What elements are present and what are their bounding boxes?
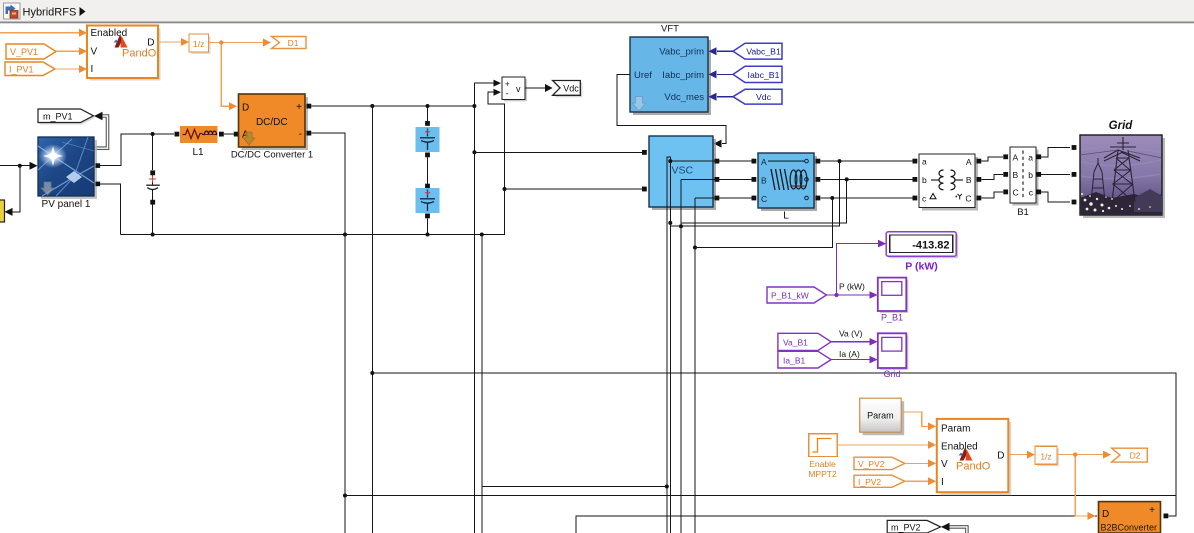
svg-text:m_PV2: m_PV2 — [891, 523, 921, 533]
svg-text:Uref: Uref — [634, 70, 652, 81]
wire phase A risers (bracket pair) down to bottom — [665, 157, 673, 533]
svg-text:V_PV2: V_PV2 — [858, 459, 885, 469]
from tag V_PV1 — [6, 44, 56, 59]
subsystem VFT (VSC controller) — [630, 24, 711, 116]
svg-text:D1: D1 — [288, 38, 299, 48]
wire bottom DC bus — [120, 89, 504, 237]
wire tap phase a loop back — [670, 161, 839, 226]
wire VSC + input — [474, 151, 644, 153]
svg-text:Vdc_mes: Vdc_mes — [664, 92, 704, 103]
wire B1 c to Grid — [1041, 192, 1070, 202]
svg-text:PandO: PandO — [956, 461, 991, 473]
svg-text:+: + — [505, 80, 510, 89]
wire V_PV1 to PandO1 — [56, 47, 87, 55]
wire vertical DC+ rail down (left of VSC) — [472, 106, 476, 533]
Grid port squares — [1072, 145, 1077, 204]
wire v to Vdc tag — [525, 84, 553, 92]
wire L b to transformer — [820, 177, 917, 181]
wire 1/z to D1 and down to DC/DC D — [209, 39, 272, 111]
wire PV+ up to L1 rail — [100, 134, 175, 166]
wire long horizontal mid-low — [345, 495, 1176, 497]
unit delay 1/z (2) — [1035, 446, 1059, 466]
wire vertical from bus junction down — [481, 235, 483, 533]
capacitor C_PV branch (symbol) — [146, 132, 160, 237]
svg-text:V_PV1: V_PV1 — [10, 47, 38, 57]
wire phase B from VSC to L — [681, 178, 754, 180]
svg-text:Iabc_B1: Iabc_B1 — [748, 70, 780, 80]
wire long DC+ bus to B2B converter — [370, 371, 1176, 516]
svg-text:VSC: VSC — [672, 165, 694, 177]
svg-text:-: - — [506, 88, 509, 98]
wire tap phase b loop back — [681, 179, 847, 223]
subsystem PandO (MPPT 1) U1 — [87, 26, 161, 81]
scope Grid — [878, 333, 909, 379]
wire + tap to voltage measurement — [474, 80, 501, 106]
svg-text:DC/DC: DC/DC — [256, 117, 288, 128]
wire phase B riser down to bottom — [679, 179, 683, 533]
svg-text:MPPT2: MPPT2 — [808, 469, 837, 479]
svg-text:+: + — [296, 102, 302, 113]
svg-text:C: C — [965, 194, 971, 204]
wire DC- from converter down — [311, 133, 347, 533]
from tag Vabc_B1 — [733, 43, 782, 59]
svg-text:a: a — [922, 157, 927, 167]
wire 1/z to D2 and down to B2B D — [1057, 451, 1111, 520]
goto tag m_PV1 — [38, 109, 95, 125]
svg-text:a: a — [1028, 153, 1033, 163]
svg-text:D: D — [1102, 509, 1109, 520]
svg-text:Va (V): Va (V) — [839, 329, 863, 339]
svg-text:-413.82: -413.82 — [912, 240, 949, 252]
svg-text:P (kW): P (kW) — [905, 260, 937, 272]
voltage measurement block v — [502, 77, 527, 101]
three-phase transformer block — [919, 154, 978, 211]
wire Va_B1 to scope Grid — [831, 329, 878, 346]
svg-text:Vdc: Vdc — [756, 92, 772, 102]
wire B1 b to Grid — [1041, 173, 1070, 175]
svg-text:Grid: Grid — [883, 369, 900, 379]
wire B1 a to Grid — [1041, 148, 1070, 157]
svg-text:V: V — [91, 47, 98, 58]
svg-text:HybridRFS: HybridRFS — [23, 7, 77, 19]
capacitor C1 (blue block) — [416, 106, 440, 184]
wire phase C riser down to bottom — [693, 198, 697, 533]
from tag P_B1_kW — [767, 287, 827, 303]
goto tag Vdc — [553, 81, 583, 98]
unit delay 1/z — [189, 34, 211, 54]
wire L c to transformer — [820, 196, 917, 200]
svg-text:Param: Param — [867, 411, 894, 421]
svg-text:I_PV1: I_PV1 — [9, 65, 34, 75]
svg-text:VFT: VFT — [661, 24, 679, 35]
svg-text:PandO: PandO — [122, 48, 157, 60]
wire tap phase c loop back — [695, 198, 832, 248]
svg-text:I: I — [941, 477, 944, 488]
svg-text:D: D — [997, 450, 1004, 461]
wire DC+ rail — [311, 104, 476, 108]
svg-text:1/z: 1/z — [1040, 451, 1051, 461]
wire Param to PandO2 — [901, 412, 936, 430]
svg-text:DC/DC Converter 1: DC/DC Converter 1 — [231, 149, 313, 160]
svg-text:Enable: Enable — [809, 459, 836, 469]
svg-text:Iabc_prim: Iabc_prim — [662, 70, 704, 81]
svg-text:L1: L1 — [192, 147, 204, 158]
wire input into PV panel left — [0, 162, 38, 170]
constant block Param — [860, 398, 905, 435]
PV panel output port squares — [96, 163, 101, 186]
step source Enable MPPT2 — [808, 434, 837, 479]
svg-text:I: I — [91, 64, 94, 75]
svg-text:v: v — [516, 84, 521, 94]
wire Vdc to VFT — [709, 93, 734, 101]
svg-text:b: b — [1028, 170, 1033, 180]
wire VSC - input — [503, 187, 645, 191]
svg-text:Vdc: Vdc — [563, 84, 579, 94]
svg-text:A: A — [1013, 153, 1019, 163]
Grid block (photo of transmission tower) — [1080, 120, 1165, 218]
from tag Va_B1 — [778, 333, 831, 350]
wire transformer C to B1 — [981, 192, 1003, 198]
wire I_PV2 to PandO2 — [905, 477, 936, 485]
wire L1 to DC/DC A — [224, 132, 239, 137]
wire Enable MPPT2 to PandO2 — [837, 441, 936, 449]
scope P_B1 — [878, 278, 909, 323]
three-phase inductor L — [758, 153, 817, 222]
PV panel 1 block (photo) — [38, 137, 97, 210]
svg-text:B2BConverter: B2BConverter — [1101, 522, 1158, 532]
capacitor C2 (blue block) — [416, 184, 440, 235]
wire L a to transformer — [820, 159, 917, 163]
svg-text:I_PV2: I_PV2 — [858, 477, 881, 487]
svg-text:C: C — [1013, 188, 1019, 198]
from tag Iabc_B1 — [733, 66, 782, 82]
svg-text:P (kW): P (kW) — [839, 281, 865, 291]
svg-text:-: - — [299, 129, 302, 140]
L port squares — [752, 159, 821, 201]
wire phase A from VSC to L (with inner junction) — [668, 159, 754, 163]
svg-text:1/z: 1/z — [193, 39, 204, 49]
from tag Vdc (blue) — [733, 89, 782, 104]
svg-text:Vabc_prim: Vabc_prim — [659, 46, 704, 57]
bus wire into m_PV2 — [941, 523, 967, 533]
wire branch down to yellow block — [5, 166, 20, 216]
svg-text:B1: B1 — [1017, 207, 1029, 218]
wire phase C from VSC to L — [695, 197, 754, 199]
wire Ia_B1 to scope Grid — [831, 349, 878, 364]
from tag I_PV2 — [854, 475, 905, 487]
toolbar breadcrumb bar — [0, 0, 1194, 23]
wire P_B1_kW to display and scope — [827, 240, 887, 299]
wire PV- down to bottom bus — [100, 184, 121, 235]
svg-text:B: B — [761, 176, 767, 186]
B1 port squares — [1003, 154, 1041, 194]
wire PandO2 D to 1/z — [1008, 451, 1035, 459]
wire PandO1 D to 1/z — [158, 38, 189, 46]
wire transformer B to B1 — [981, 174, 1003, 179]
svg-text:V: V — [941, 459, 948, 470]
yellow block (clipped at left edge) — [0, 200, 5, 222]
wire Iabc_B1 to VFT — [709, 70, 734, 78]
subsystem VSC (converter bridge) — [649, 136, 716, 210]
svg-text:Vabc_B1: Vabc_B1 — [746, 47, 781, 57]
svg-text:Enabled: Enabled — [941, 442, 978, 453]
display P (kW) value — [886, 232, 958, 272]
svg-text:Ia_B1: Ia_B1 — [783, 355, 805, 365]
from tag V_PV2 — [854, 457, 905, 469]
transformer port squares — [913, 159, 982, 201]
wire Vabc_B1 to VFT — [709, 47, 734, 55]
VSC port squares — [642, 150, 719, 200]
svg-text:B: B — [966, 175, 972, 185]
svg-text:C: C — [761, 194, 767, 204]
svg-text:D2: D2 — [1130, 451, 1141, 461]
svg-text:Param: Param — [941, 424, 970, 435]
subsystem PandO (MPPT 2) U2 — [937, 419, 1012, 495]
subsystem B2BConverter (clipped at bottom) — [1099, 502, 1169, 533]
goto tag D1 — [272, 37, 307, 49]
from tag Ia_B1 — [778, 351, 831, 368]
svg-text:D: D — [242, 103, 249, 114]
svg-text:P_B1: P_B1 — [881, 313, 903, 323]
svg-text:A: A — [966, 157, 972, 167]
wire vertical DC+ share to bottom converter — [371, 106, 373, 533]
svg-text:b: b — [922, 175, 927, 185]
svg-text:Ia (A): Ia (A) — [839, 349, 860, 359]
from tag I_PV1 — [5, 62, 55, 76]
wire enable into PandO1 — [0, 29, 87, 37]
svg-text:B: B — [1013, 170, 1019, 180]
svg-text:PV panel 1: PV panel 1 — [42, 199, 91, 210]
subsystem box edge (PV system 2) — [576, 516, 1097, 533]
bus wire m from PV panel to m_PV1 — [94, 112, 108, 148]
wire short horizontal lower-left — [482, 486, 667, 488]
wire Uref to VSC gate — [617, 75, 726, 148]
svg-text:L: L — [783, 211, 789, 222]
svg-text:A: A — [761, 157, 767, 167]
wire I_PV1 to PandO1 — [55, 65, 87, 73]
svg-text:+: + — [1149, 505, 1155, 516]
svg-text:Va_B1: Va_B1 — [783, 337, 808, 347]
goto tag D2 — [1112, 448, 1148, 462]
DC/DC Converter 1 block — [231, 94, 313, 160]
svg-text:m_PV1: m_PV1 — [43, 112, 73, 122]
goto tag m_PV2 — [887, 520, 940, 533]
wire transformer A to B1 — [981, 157, 1003, 161]
wire V_PV2 to PandO2 — [905, 459, 936, 467]
svg-text:P_B1_kW: P_B1_kW — [771, 291, 809, 301]
three-phase measurement B1 — [1010, 147, 1039, 218]
svg-text:Grid: Grid — [1109, 120, 1134, 132]
inductor L1 — [175, 126, 224, 158]
